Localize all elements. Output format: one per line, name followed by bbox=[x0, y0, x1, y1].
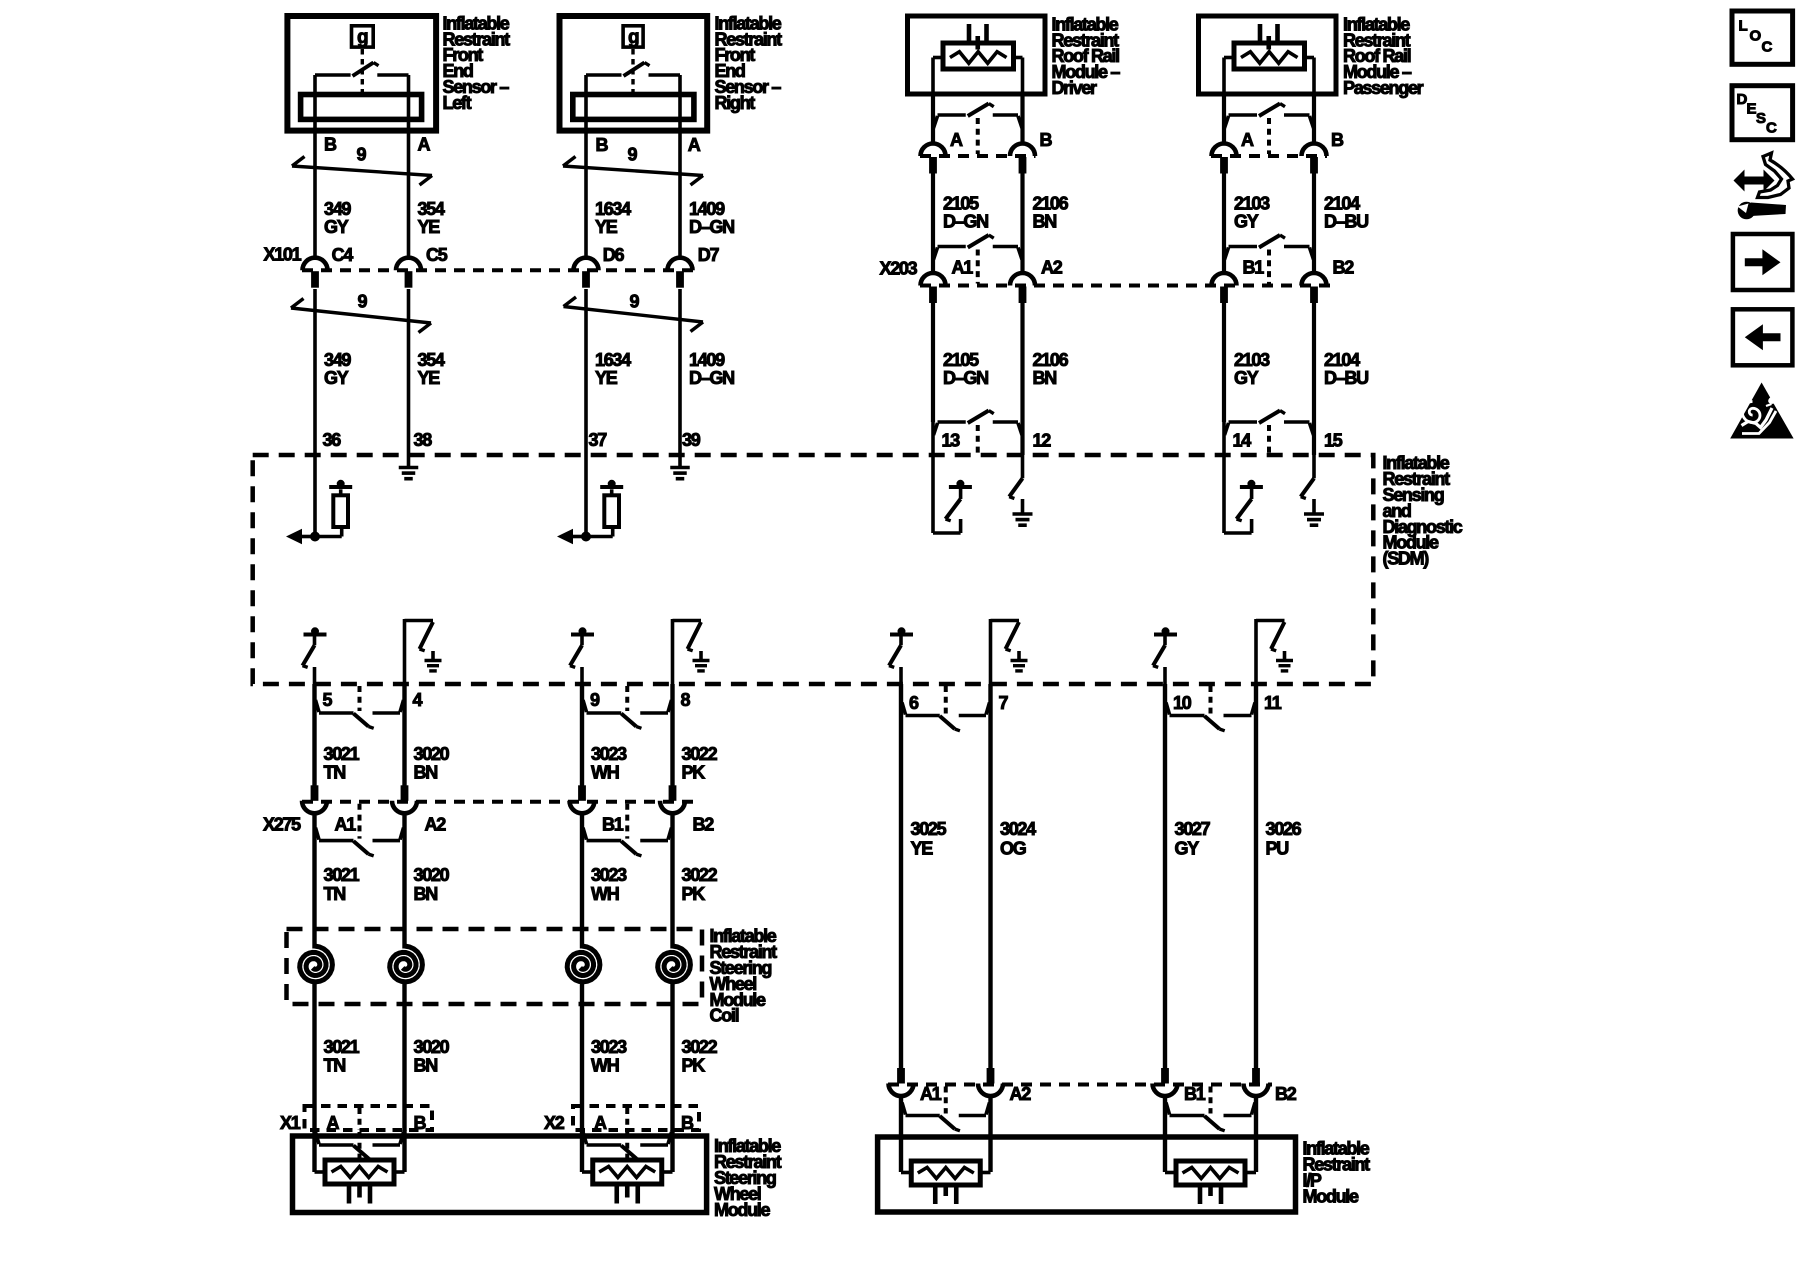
pin 5 number bbox=[323, 690, 333, 710]
svg-text:B: B bbox=[414, 1113, 427, 1133]
svg-text:2106: 2106 bbox=[1033, 350, 1069, 370]
svg-text:3021: 3021 bbox=[324, 1037, 360, 1057]
svg-text:D–GN: D–GN bbox=[943, 368, 988, 388]
svg-text:A1: A1 bbox=[952, 257, 974, 277]
svg-text:YE: YE bbox=[595, 217, 618, 237]
wire 3022 PK X275 to coil bbox=[670, 813, 674, 929]
DESC icon box bbox=[1732, 86, 1793, 140]
svg-text:PK: PK bbox=[682, 1056, 706, 1076]
svg-text:A2: A2 bbox=[1010, 1084, 1032, 1104]
I/P squib bbox=[1165, 1161, 1256, 1204]
module in-line connector indicator bbox=[583, 1132, 672, 1160]
I/P in-line connector indicator bbox=[1166, 1087, 1255, 1131]
svg-text:OG: OG bbox=[1000, 839, 1026, 859]
wire 3022 PK SDM to X275 bbox=[670, 684, 674, 786]
arrow right icon bbox=[1733, 234, 1793, 290]
clockspring coil bbox=[300, 929, 333, 1004]
roof connector pin B bbox=[1302, 144, 1327, 174]
twisted pair 9 right sensor bbox=[563, 145, 703, 185]
label 3021 TN upper bbox=[324, 744, 360, 783]
wire 2104 D–BU connector to X203 bbox=[1312, 174, 1316, 274]
SDM module dashed box bbox=[253, 455, 1374, 684]
svg-text:B1: B1 bbox=[602, 815, 624, 835]
wire 3020 BN X275 to coil bbox=[402, 813, 406, 929]
label 3023 WH lower bbox=[591, 1037, 627, 1076]
steering wheel coil dashed box bbox=[287, 929, 703, 1004]
roof rail passenger squib bbox=[1224, 24, 1314, 96]
SDM deploy switch to ground bbox=[1256, 619, 1293, 684]
pin label B bbox=[596, 135, 609, 155]
svg-text:A2: A2 bbox=[1041, 257, 1063, 277]
SDM in-line connector indicator bbox=[933, 411, 1022, 456]
wire 2106 BN roof module to connector bbox=[1020, 94, 1024, 144]
airbag warning triangle bbox=[1730, 383, 1793, 439]
svg-text:354: 354 bbox=[418, 199, 445, 219]
pin 12 number bbox=[1033, 430, 1052, 450]
svg-text:D–BU: D–BU bbox=[1324, 212, 1368, 232]
svg-text:Module: Module bbox=[714, 1200, 770, 1220]
SDM bottom in-line connector indicator bbox=[902, 686, 990, 731]
clockspring coil bbox=[658, 929, 691, 1004]
label 3023 WH middle bbox=[591, 865, 627, 904]
wire 2103 GY X203 to SDM bbox=[1222, 303, 1226, 423]
pin 13 number bbox=[942, 430, 961, 450]
svg-text:3022: 3022 bbox=[682, 865, 718, 885]
svg-text:B1: B1 bbox=[1184, 1084, 1206, 1104]
svg-text:B2: B2 bbox=[693, 815, 715, 835]
I/P connector pin A1 bbox=[889, 1068, 942, 1104]
svg-text:10: 10 bbox=[1173, 693, 1192, 713]
svg-text:Coil: Coil bbox=[710, 1006, 739, 1026]
svg-text:O: O bbox=[1750, 28, 1762, 45]
label X203 bbox=[880, 259, 918, 279]
svg-text:B: B bbox=[681, 1113, 694, 1133]
svg-text:2104: 2104 bbox=[1324, 194, 1360, 214]
pin label A bbox=[418, 135, 431, 155]
twisted pair 9 left lower bbox=[291, 292, 431, 333]
svg-text:A: A bbox=[594, 1113, 607, 1133]
front end sensor left box bbox=[287, 16, 436, 131]
svg-text:WH: WH bbox=[591, 1056, 619, 1076]
svg-text:2105: 2105 bbox=[943, 194, 979, 214]
label X1 bbox=[280, 1113, 301, 1133]
SDM deploy switch to ground bbox=[991, 619, 1028, 684]
connector X275 line bbox=[302, 800, 694, 804]
svg-text:3023: 3023 bbox=[591, 744, 627, 764]
svg-text:B2: B2 bbox=[1275, 1084, 1297, 1104]
SDM deploy switch to ground bbox=[673, 619, 710, 684]
SDM bottom in-line connector indicator bbox=[316, 686, 404, 728]
label 2105 D–GN upper bbox=[943, 194, 988, 232]
svg-text:D–BU: D–BU bbox=[1324, 368, 1368, 388]
svg-text:13: 13 bbox=[942, 430, 961, 450]
svg-text:3021: 3021 bbox=[324, 865, 360, 885]
X1 pin A label bbox=[327, 1113, 340, 1133]
twisted pair 9 right lower bbox=[564, 292, 704, 332]
svg-text:3020: 3020 bbox=[414, 744, 450, 764]
svg-text:X203: X203 bbox=[880, 259, 918, 279]
wire 2104 D–BU roof module to connector bbox=[1312, 94, 1316, 144]
wire 1409 D-GN sensor-right A to X101 D7 bbox=[678, 96, 682, 258]
svg-text:12: 12 bbox=[1033, 430, 1052, 450]
svg-text:GY: GY bbox=[1234, 368, 1259, 388]
wire 2105 D–GN X203 to SDM bbox=[931, 303, 935, 423]
svg-text:B: B bbox=[596, 135, 609, 155]
label 3022 PK upper bbox=[682, 744, 718, 783]
label 2105 D–GN lower bbox=[943, 350, 988, 388]
wire 1634 YE sensor-right B to X101 D6 bbox=[584, 96, 588, 258]
label 3024 OG bbox=[1000, 819, 1036, 859]
connector X203 pin A2 bbox=[1010, 257, 1063, 303]
steering wheel squib bbox=[315, 1160, 405, 1204]
svg-text:X275: X275 bbox=[263, 815, 301, 835]
wire 3027 GY SDM to I/P connector bbox=[1163, 684, 1167, 1069]
wire 3021 TN coil to X1/X2 bbox=[312, 1004, 316, 1131]
roof in-line connector line bbox=[920, 154, 1036, 158]
pin 8 number bbox=[681, 690, 691, 710]
I/P connector pin B2 bbox=[1244, 1068, 1297, 1104]
wire 3020 BN SDM to X275 bbox=[402, 684, 406, 786]
coil box label bbox=[710, 926, 778, 1025]
svg-text:9: 9 bbox=[628, 145, 638, 165]
label 2104 D–BU lower bbox=[1324, 350, 1368, 388]
svg-text:D–GN: D–GN bbox=[943, 212, 988, 232]
svg-text:4: 4 bbox=[413, 690, 423, 710]
sensor right g-symbol bbox=[623, 26, 643, 93]
SDM deploy switch with node bbox=[889, 627, 913, 684]
svg-text:3023: 3023 bbox=[591, 1037, 627, 1057]
I/P module box bbox=[878, 1137, 1296, 1212]
svg-text:A2: A2 bbox=[425, 815, 447, 835]
svg-text:WH: WH bbox=[591, 763, 619, 783]
SDM pin 37 sense resistor and arrow bbox=[557, 455, 623, 544]
svg-text:A: A bbox=[950, 130, 963, 150]
svg-text:BN: BN bbox=[1033, 212, 1057, 232]
SDM pin 39 ground bbox=[670, 455, 690, 479]
connector X275 pin A1 bbox=[302, 785, 356, 834]
svg-text:8: 8 bbox=[681, 690, 691, 710]
connector X203 line bbox=[920, 284, 1330, 288]
SDM deploy switch to ground bbox=[405, 619, 442, 684]
clockspring coil bbox=[390, 929, 423, 1004]
svg-text:YE: YE bbox=[911, 839, 934, 859]
I/P in-line connector indicator bbox=[902, 1087, 990, 1131]
pin 15 number bbox=[1324, 430, 1343, 450]
svg-text:BN: BN bbox=[414, 884, 438, 904]
svg-text:B2: B2 bbox=[1333, 257, 1355, 277]
connector X275 pin A2 bbox=[392, 785, 446, 834]
svg-text:2106: 2106 bbox=[1033, 194, 1069, 214]
svg-text:D7: D7 bbox=[698, 245, 720, 265]
SDM deploy switch with node bbox=[303, 627, 327, 684]
twisted pair 9 left sensor bbox=[292, 145, 432, 185]
SDM pin 15 switch to ground bbox=[1301, 455, 1324, 525]
svg-text:1409: 1409 bbox=[689, 199, 725, 219]
svg-text:X101: X101 bbox=[264, 245, 302, 265]
sensor left mass bar bbox=[301, 95, 422, 120]
svg-text:9: 9 bbox=[358, 292, 368, 312]
pin 11 number bbox=[1264, 693, 1282, 713]
wire 1409 D-GN X101 to SDM pin 39 bbox=[678, 289, 682, 455]
svg-text:E: E bbox=[1747, 101, 1757, 118]
label 349 GY upper bbox=[324, 199, 351, 237]
svg-text:1409: 1409 bbox=[689, 350, 725, 370]
svg-text:BN: BN bbox=[414, 1056, 438, 1076]
sensor left contacts bbox=[315, 75, 409, 96]
svg-text:3023: 3023 bbox=[591, 865, 627, 885]
svg-text:Module: Module bbox=[1303, 1186, 1359, 1206]
SDM pin 12 switch to ground bbox=[1009, 455, 1032, 525]
wire 3021 TN SDM to X275 bbox=[312, 684, 316, 786]
svg-text:3022: 3022 bbox=[682, 744, 718, 764]
wire 3026 PU SDM to I/P connector bbox=[1254, 684, 1258, 1069]
label X2 bbox=[544, 1113, 565, 1133]
svg-text:A: A bbox=[688, 135, 701, 155]
label 2104 D–BU upper bbox=[1324, 194, 1368, 232]
pin 6 number bbox=[909, 693, 919, 713]
X275 in-line connector indicator bbox=[316, 804, 404, 856]
I/P module label bbox=[1303, 1139, 1371, 1207]
svg-text:X1: X1 bbox=[280, 1113, 301, 1133]
wire 2106 BN connector to X203 bbox=[1020, 174, 1024, 274]
roof connector pin A bbox=[921, 144, 946, 174]
svg-text:349: 349 bbox=[324, 350, 351, 370]
SDM label bbox=[1383, 453, 1463, 568]
label 354 YE upper bbox=[418, 199, 445, 237]
roof in-line connector indicator bbox=[934, 104, 1023, 155]
SDM pin 36 sense resistor and arrow bbox=[286, 455, 352, 544]
wire 2104 D–BU X203 to SDM bbox=[1312, 303, 1316, 456]
svg-text:TN: TN bbox=[324, 1056, 346, 1076]
svg-text:A1: A1 bbox=[335, 815, 357, 835]
connector X275 pin B1 bbox=[570, 785, 624, 834]
wire 2105 D–GN connector to X203 bbox=[931, 174, 935, 274]
svg-text:3024: 3024 bbox=[1000, 819, 1036, 839]
label 3021 TN lower bbox=[324, 1037, 360, 1076]
svg-text:C: C bbox=[1766, 120, 1777, 137]
svg-text:2105: 2105 bbox=[943, 350, 979, 370]
label 1634 YE upper bbox=[595, 199, 631, 237]
wire 2103 GY roof module to connector bbox=[1222, 94, 1226, 144]
svg-text:YE: YE bbox=[418, 368, 441, 388]
pin 39 number bbox=[682, 430, 701, 450]
label X275 bbox=[263, 815, 301, 835]
svg-text:9: 9 bbox=[357, 145, 367, 165]
roof connector pin B bbox=[1010, 144, 1035, 174]
svg-text:GY: GY bbox=[1234, 212, 1259, 232]
roof in-line connector line bbox=[1211, 154, 1327, 158]
pin 37 number bbox=[589, 430, 608, 450]
svg-text:15: 15 bbox=[1324, 430, 1343, 450]
connector X203 pin B1 bbox=[1212, 257, 1265, 303]
svg-text:2103: 2103 bbox=[1234, 350, 1270, 370]
wire 2103 GY connector to X203 bbox=[1222, 174, 1226, 274]
pin 10 number bbox=[1173, 693, 1192, 713]
X2 pin A label bbox=[594, 1113, 607, 1133]
X1 pin B label bbox=[414, 1113, 427, 1133]
SDM pin 13 switch to internal node bbox=[933, 455, 972, 533]
svg-text:3021: 3021 bbox=[324, 744, 360, 764]
svg-text:3022: 3022 bbox=[682, 1037, 718, 1057]
wire 2105 D–GN roof module to connector bbox=[931, 94, 935, 144]
label 3022 PK middle bbox=[682, 865, 718, 904]
schematic navigation icon bbox=[1734, 153, 1793, 219]
connector X101 pin D7 bbox=[668, 245, 720, 288]
wire 3023 WH coil to X1/X2 bbox=[580, 1004, 584, 1131]
svg-text:PK: PK bbox=[682, 884, 706, 904]
arrow left icon bbox=[1733, 309, 1793, 365]
roof rail driver squib bbox=[933, 24, 1023, 96]
wires X1 to squib bbox=[315, 1130, 405, 1172]
label 3021 TN middle bbox=[324, 865, 360, 904]
svg-text:3027: 3027 bbox=[1175, 819, 1211, 839]
wire 3022 PK coil to X1/X2 bbox=[670, 1004, 674, 1131]
svg-text:9: 9 bbox=[630, 292, 640, 312]
SDM in-line connector indicator bbox=[1224, 411, 1314, 456]
I/P connector pin B1 bbox=[1153, 1068, 1206, 1104]
label 2103 GY upper bbox=[1234, 194, 1270, 232]
sensor left switch blade bbox=[353, 63, 379, 77]
wire 3021 TN X275 to coil bbox=[312, 813, 316, 929]
pin 9 number bbox=[590, 690, 600, 710]
label 3020 BN middle bbox=[414, 865, 450, 904]
label 2106 BN upper bbox=[1033, 194, 1069, 232]
svg-text:3020: 3020 bbox=[414, 865, 450, 885]
steering wheel squib bbox=[582, 1160, 673, 1204]
label 3026 PU bbox=[1266, 819, 1302, 859]
label X101 bbox=[264, 245, 302, 265]
roof in-line connector indicator bbox=[1225, 104, 1314, 155]
svg-text:2104: 2104 bbox=[1324, 350, 1360, 370]
connector X1 dashed box bbox=[305, 1106, 433, 1130]
roof connector pin A bbox=[1212, 144, 1237, 174]
svg-text:Driver: Driver bbox=[1052, 78, 1098, 98]
steering wheel module box bbox=[293, 1136, 707, 1213]
svg-text:11: 11 bbox=[1264, 693, 1282, 713]
svg-text:1634: 1634 bbox=[595, 199, 631, 219]
connector X203 pin A1 bbox=[921, 257, 974, 303]
connector X203 pin B2 bbox=[1302, 257, 1355, 303]
SDM pin 14 switch to internal node bbox=[1224, 455, 1263, 533]
connector X2 dashed box bbox=[573, 1106, 699, 1130]
pin 36 number bbox=[323, 430, 342, 450]
label 349 GY lower bbox=[324, 350, 351, 388]
wire 354 YE sensor-left A to X101 C5 bbox=[407, 96, 411, 258]
svg-text:BN: BN bbox=[414, 763, 438, 783]
svg-text:9: 9 bbox=[590, 690, 600, 710]
wire 3025 YE SDM to I/P connector bbox=[899, 684, 903, 1069]
svg-text:B: B bbox=[324, 135, 337, 155]
I/P connector pin A2 bbox=[978, 1068, 1031, 1104]
wire 349 GY X101 to SDM pin 36 bbox=[313, 289, 317, 455]
connector X101 pin C4 bbox=[303, 245, 354, 288]
SDM deploy switch with node bbox=[1153, 627, 1177, 684]
SDM deploy switch with node bbox=[570, 627, 594, 684]
connector X275 pin B2 bbox=[660, 785, 714, 834]
wires connector to I/P squib bbox=[901, 1096, 991, 1173]
svg-text:3020: 3020 bbox=[414, 1037, 450, 1057]
svg-text:14: 14 bbox=[1233, 430, 1252, 450]
svg-text:YE: YE bbox=[418, 217, 441, 237]
I/P connector line bbox=[888, 1083, 1272, 1087]
wire 2106 BN X203 to SDM bbox=[1020, 303, 1024, 456]
pin 7 number bbox=[999, 693, 1009, 713]
svg-text:C5: C5 bbox=[426, 245, 448, 265]
svg-text:3025: 3025 bbox=[911, 819, 947, 839]
svg-text:L: L bbox=[1739, 18, 1748, 35]
svg-text:Right: Right bbox=[715, 93, 756, 113]
pin 38 number bbox=[414, 430, 433, 450]
front end sensor right box bbox=[560, 16, 708, 131]
svg-text:TN: TN bbox=[324, 763, 346, 783]
svg-text:Left: Left bbox=[443, 93, 472, 113]
svg-text:WH: WH bbox=[591, 884, 619, 904]
connector X101 pin D6 bbox=[574, 245, 625, 288]
roof rail driver label bbox=[1052, 14, 1121, 98]
wire 3023 WH X275 to coil bbox=[580, 813, 584, 929]
svg-text:GY: GY bbox=[1175, 839, 1200, 859]
X203 in-line connector indicator bbox=[934, 235, 1023, 284]
label 3023 WH upper bbox=[591, 744, 627, 783]
wires X1 to squib bbox=[582, 1130, 673, 1172]
wire 3023 WH SDM to X275 bbox=[580, 684, 584, 786]
svg-text:TN: TN bbox=[324, 884, 346, 904]
pin label B bbox=[1040, 130, 1053, 150]
svg-text:(SDM): (SDM) bbox=[1383, 549, 1430, 569]
SDM bottom in-line connector indicator bbox=[583, 686, 672, 728]
svg-text:GY: GY bbox=[324, 217, 349, 237]
pin label B bbox=[324, 135, 337, 155]
label 1634 YE lower bbox=[595, 350, 631, 388]
sensor right label bbox=[715, 13, 783, 113]
module in-line connector indicator bbox=[316, 1132, 404, 1160]
pin label B bbox=[1331, 130, 1344, 150]
svg-text:S: S bbox=[1756, 110, 1766, 127]
label 3022 PK lower bbox=[682, 1037, 718, 1076]
svg-text:C4: C4 bbox=[332, 245, 354, 265]
label 3020 BN upper bbox=[414, 744, 450, 783]
label 3020 BN lower bbox=[414, 1037, 450, 1076]
svg-text:37: 37 bbox=[589, 430, 608, 450]
SDM bottom in-line connector indicator bbox=[1166, 686, 1255, 731]
pin 4 number bbox=[413, 690, 423, 710]
label 3027 GY bbox=[1175, 819, 1211, 859]
label 354 YE lower bbox=[418, 350, 445, 388]
svg-text:354: 354 bbox=[418, 350, 445, 370]
wire 354 YE X101 to SDM pin 38 bbox=[407, 289, 411, 455]
roof rail passenger label bbox=[1343, 14, 1424, 98]
svg-text:349: 349 bbox=[324, 199, 351, 219]
svg-text:B: B bbox=[1040, 130, 1053, 150]
svg-text:7: 7 bbox=[999, 693, 1009, 713]
svg-text:B1: B1 bbox=[1243, 257, 1265, 277]
svg-text:C: C bbox=[1762, 39, 1773, 56]
svg-text:A: A bbox=[327, 1113, 340, 1133]
svg-text:1634: 1634 bbox=[595, 350, 631, 370]
svg-text:PU: PU bbox=[1266, 839, 1289, 859]
svg-text:D–GN: D–GN bbox=[689, 217, 734, 237]
svg-text:B: B bbox=[1331, 130, 1344, 150]
label 1409 D-GN lower bbox=[689, 350, 734, 388]
sensor right contacts bbox=[586, 75, 680, 96]
wires connector to I/P squib bbox=[1165, 1096, 1256, 1173]
svg-text:g: g bbox=[628, 27, 639, 48]
svg-text:YE: YE bbox=[595, 368, 618, 388]
svg-text:6: 6 bbox=[909, 693, 919, 713]
X203 in-line connector indicator bbox=[1225, 235, 1314, 284]
connector X101 line bbox=[302, 268, 694, 272]
roof rail module passenger box bbox=[1199, 16, 1337, 94]
